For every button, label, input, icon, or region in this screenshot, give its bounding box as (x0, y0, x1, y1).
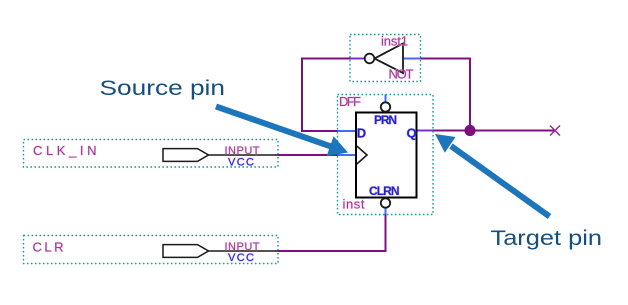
dff inst (338, 94, 434, 215)
NOT input stub (403, 58, 421, 60)
svg-text:Source pin: Source pin (100, 77, 226, 100)
input pin CLK_IN (24, 140, 279, 169)
pin lead wire (209, 250, 279, 252)
svg-text:inst1: inst1 (381, 34, 408, 49)
pin lead wire (209, 154, 279, 156)
svg-text:CLRN: CLRN (369, 184, 400, 198)
input pin CLR (24, 236, 279, 264)
CLRN bubble (381, 198, 390, 207)
svg-text:D: D (357, 126, 366, 141)
clock triangle (357, 146, 367, 164)
selection box CLR (24, 236, 279, 264)
svg-text:DFF: DFF (339, 94, 361, 109)
annotation arrow source (216, 107, 348, 157)
selection box NOT (350, 35, 421, 82)
svg-text:VCC: VCC (228, 252, 254, 264)
selection box CLK_IN (24, 140, 279, 168)
wire junction riser (421, 59, 471, 131)
svg-text:Q: Q (407, 126, 417, 141)
clock input stub (338, 154, 357, 156)
NOT bubble (365, 54, 375, 64)
Q output stub (417, 130, 434, 132)
wire CLK_IN to DFF clock (278, 154, 338, 156)
NOT output stub (350, 58, 365, 60)
DFF body rectangle (356, 113, 417, 198)
wire CLR to CLRN (278, 215, 386, 252)
svg-text:inst: inst (343, 197, 365, 212)
selection box DFF (338, 95, 434, 215)
svg-text:NOT: NOT (389, 67, 414, 82)
junction dot (464, 125, 475, 136)
PRN stub (385, 95, 387, 103)
NOT triangle (375, 44, 404, 74)
pin symbol CLK_IN (163, 149, 209, 162)
wire NOT output to D input (302, 59, 350, 132)
annotation arrow target (435, 134, 550, 217)
CLRN stub (385, 208, 387, 215)
svg-text:VCC: VCC (228, 156, 254, 168)
svg-text:PRN: PRN (374, 113, 397, 127)
PRN bubble (381, 102, 390, 111)
svg-text:Target pin: Target pin (491, 227, 603, 250)
pin symbol CLR (163, 245, 209, 258)
svg-text:CLK_IN: CLK_IN (33, 143, 97, 158)
wire end X (550, 126, 560, 136)
svg-text:CLR: CLR (33, 240, 64, 255)
wire feedback Q to NOT input (433, 130, 555, 132)
D input stub (338, 130, 357, 132)
not gate inst1 (350, 34, 421, 82)
svg-text:INPUT: INPUT (225, 145, 260, 157)
